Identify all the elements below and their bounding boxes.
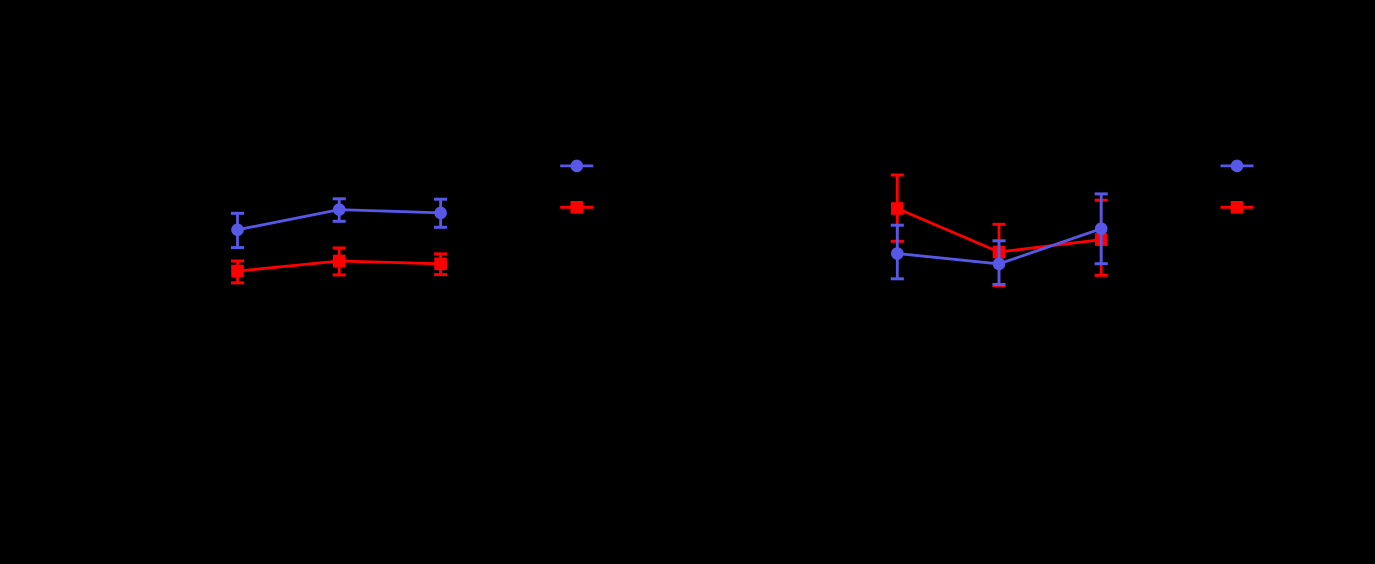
- right panel blue error bar 2: [992, 241, 1005, 285]
- left panel blue circle marker 1: [231, 224, 244, 237]
- left panel blue error bar 3: [434, 199, 447, 227]
- right panel blue circle marker 2: [993, 258, 1006, 271]
- right panel blue circle marker 1: [891, 247, 904, 260]
- left panel red square marker 3: [434, 258, 447, 271]
- right panel red square marker 2: [993, 246, 1006, 259]
- right panel blue circle marker 3: [1095, 222, 1108, 235]
- left panel blue circle marker 3: [434, 207, 447, 220]
- left panel blue line: [238, 210, 441, 230]
- right legend blue entry: [1221, 160, 1254, 173]
- right panel red square marker 1: [891, 202, 904, 215]
- left panel blue error bar 1: [231, 213, 244, 247]
- left legend blue entry: [560, 160, 593, 173]
- left panel red error bar 3: [434, 254, 447, 275]
- left panel red square marker 1: [231, 265, 244, 278]
- right panel red error bar 1: [891, 175, 904, 241]
- left panel blue error bar 2: [333, 199, 346, 222]
- left panel red error bar 2: [333, 248, 346, 275]
- left legend red entry: [560, 201, 593, 214]
- right panel blue line: [897, 229, 1101, 264]
- right panel red square marker 3: [1095, 233, 1108, 246]
- right panel blue error bar 1: [891, 225, 904, 279]
- left panel red square marker 2: [333, 255, 346, 268]
- right panel red error bar 3: [1095, 200, 1108, 275]
- right panel blue error bar 3: [1095, 194, 1108, 264]
- left panel red error bar 1: [231, 261, 244, 283]
- right legend red entry: [1221, 201, 1254, 214]
- right panel red line: [897, 209, 1101, 253]
- left panel red line: [238, 261, 441, 271]
- right panel red error bar 2: [992, 224, 1005, 285]
- left panel blue circle marker 2: [333, 203, 346, 216]
